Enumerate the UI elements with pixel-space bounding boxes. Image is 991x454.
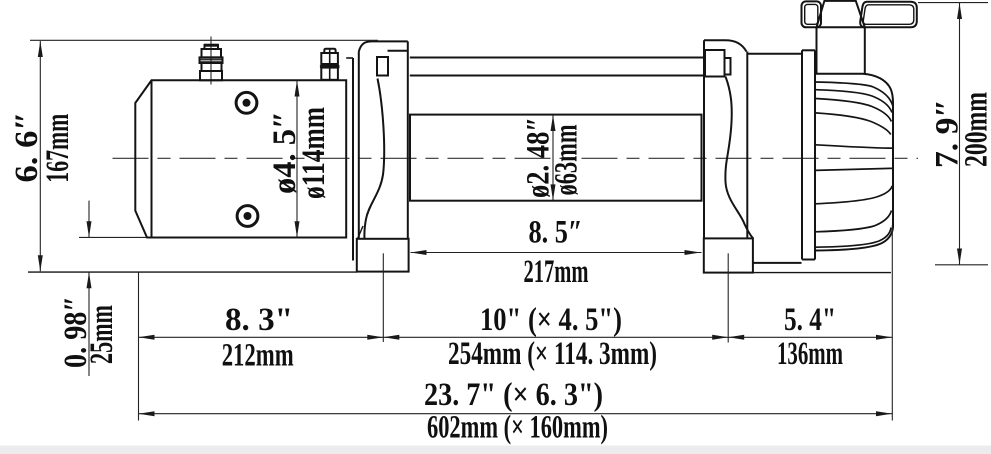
svg-text:136mm: 136mm — [777, 336, 843, 372]
baseline right segment — [753, 272, 891, 274]
gear housing dome outline — [815, 74, 893, 251]
0.98 arrows — [87, 221, 92, 237]
tie rod stub near motor — [346, 57, 353, 59]
clutch handle left grip — [802, 1, 822, 27]
dim 23.7 — [139, 413, 893, 415]
right bracket rib — [725, 77, 753, 239]
centerline main axis — [113, 157, 919, 159]
dim 10 — [383, 336, 728, 338]
svg-text:8. 5″: 8. 5″ — [529, 215, 583, 251]
baseline left segment — [28, 271, 357, 273]
dome ribs bottom — [815, 186, 892, 247]
left bracket top plate — [359, 41, 408, 238]
right tie rod block — [705, 50, 731, 77]
clutch stem — [817, 27, 865, 73]
terminal bolt 2 — [320, 49, 339, 80]
ext motor bottom for 0.98 — [79, 236, 147, 238]
8.5 arrows — [411, 250, 427, 255]
svg-text:254mm (× 114. 3mm): 254mm (× 114. 3mm) — [448, 336, 657, 372]
motor face bolt bottom — [237, 206, 258, 227]
dim 5.4 — [728, 336, 892, 338]
7.9 arrows — [957, 3, 962, 19]
tie rod — [410, 58, 704, 76]
4.5 arrows — [295, 81, 300, 97]
ext top 6.6 — [30, 39, 378, 41]
left bracket thin plate — [353, 52, 359, 261]
23.7 arrows — [139, 411, 155, 416]
svg-text:8. 3": 8. 3" — [225, 302, 293, 338]
right bracket plate — [704, 40, 747, 238]
5.4 arrows — [728, 335, 744, 340]
left foot — [357, 226, 409, 272]
ext 7.9 bottom — [935, 264, 988, 266]
dim 6.6 line — [39, 41, 41, 271]
left bracket rib — [364, 79, 384, 239]
svg-text:217mm: 217mm — [524, 254, 589, 290]
dim 7.9 — [959, 3, 961, 265]
gear housing mount plate — [802, 50, 815, 259]
svg-text:200mm: 200mm — [959, 92, 991, 167]
svg-text:ø114mm: ø114mm — [296, 107, 332, 199]
svg-text:212mm: 212mm — [222, 338, 294, 374]
svg-text:10" (× 4. 5"): 10" (× 4. 5") — [480, 302, 622, 338]
svg-text:25mm: 25mm — [84, 305, 120, 364]
dim dia 4.5 — [296, 81, 298, 238]
dome ribs top — [815, 82, 893, 135]
bottom gray strip — [0, 446, 991, 454]
2.48 arrows — [551, 115, 556, 131]
svg-text:23. 7" (× 6. 3"): 23. 7" (× 6. 3") — [424, 377, 603, 413]
10 arrows — [383, 335, 399, 340]
drum — [410, 115, 702, 201]
svg-text:5. 4": 5. 4" — [784, 302, 836, 338]
svg-text:602mm (× 160mm): 602mm (× 160mm) — [427, 410, 608, 446]
dim dia 2.48 — [552, 115, 554, 200]
motor body — [135, 80, 346, 237]
motor face bolt top — [236, 92, 257, 113]
ext 7.9 top — [918, 2, 988, 4]
right foot — [704, 238, 753, 272]
ext lines bottom row — [138, 273, 140, 421]
cylinder section — [747, 54, 801, 263]
svg-text:ø63mm: ø63mm — [549, 125, 585, 196]
dim 8.3 — [139, 336, 384, 338]
6.6 arrows — [38, 41, 43, 57]
svg-text:167mm: 167mm — [40, 114, 76, 183]
left tie rod block — [377, 57, 388, 76]
clutch handle hub — [817, 1, 865, 27]
terminal bolt 1 — [200, 37, 223, 85]
dome mid lines — [815, 145, 893, 171]
dim 8.5 — [411, 252, 702, 254]
8.3 arrows — [139, 335, 155, 340]
dim 0.98 — [88, 201, 90, 376]
clutch handle right grip — [860, 2, 917, 28]
